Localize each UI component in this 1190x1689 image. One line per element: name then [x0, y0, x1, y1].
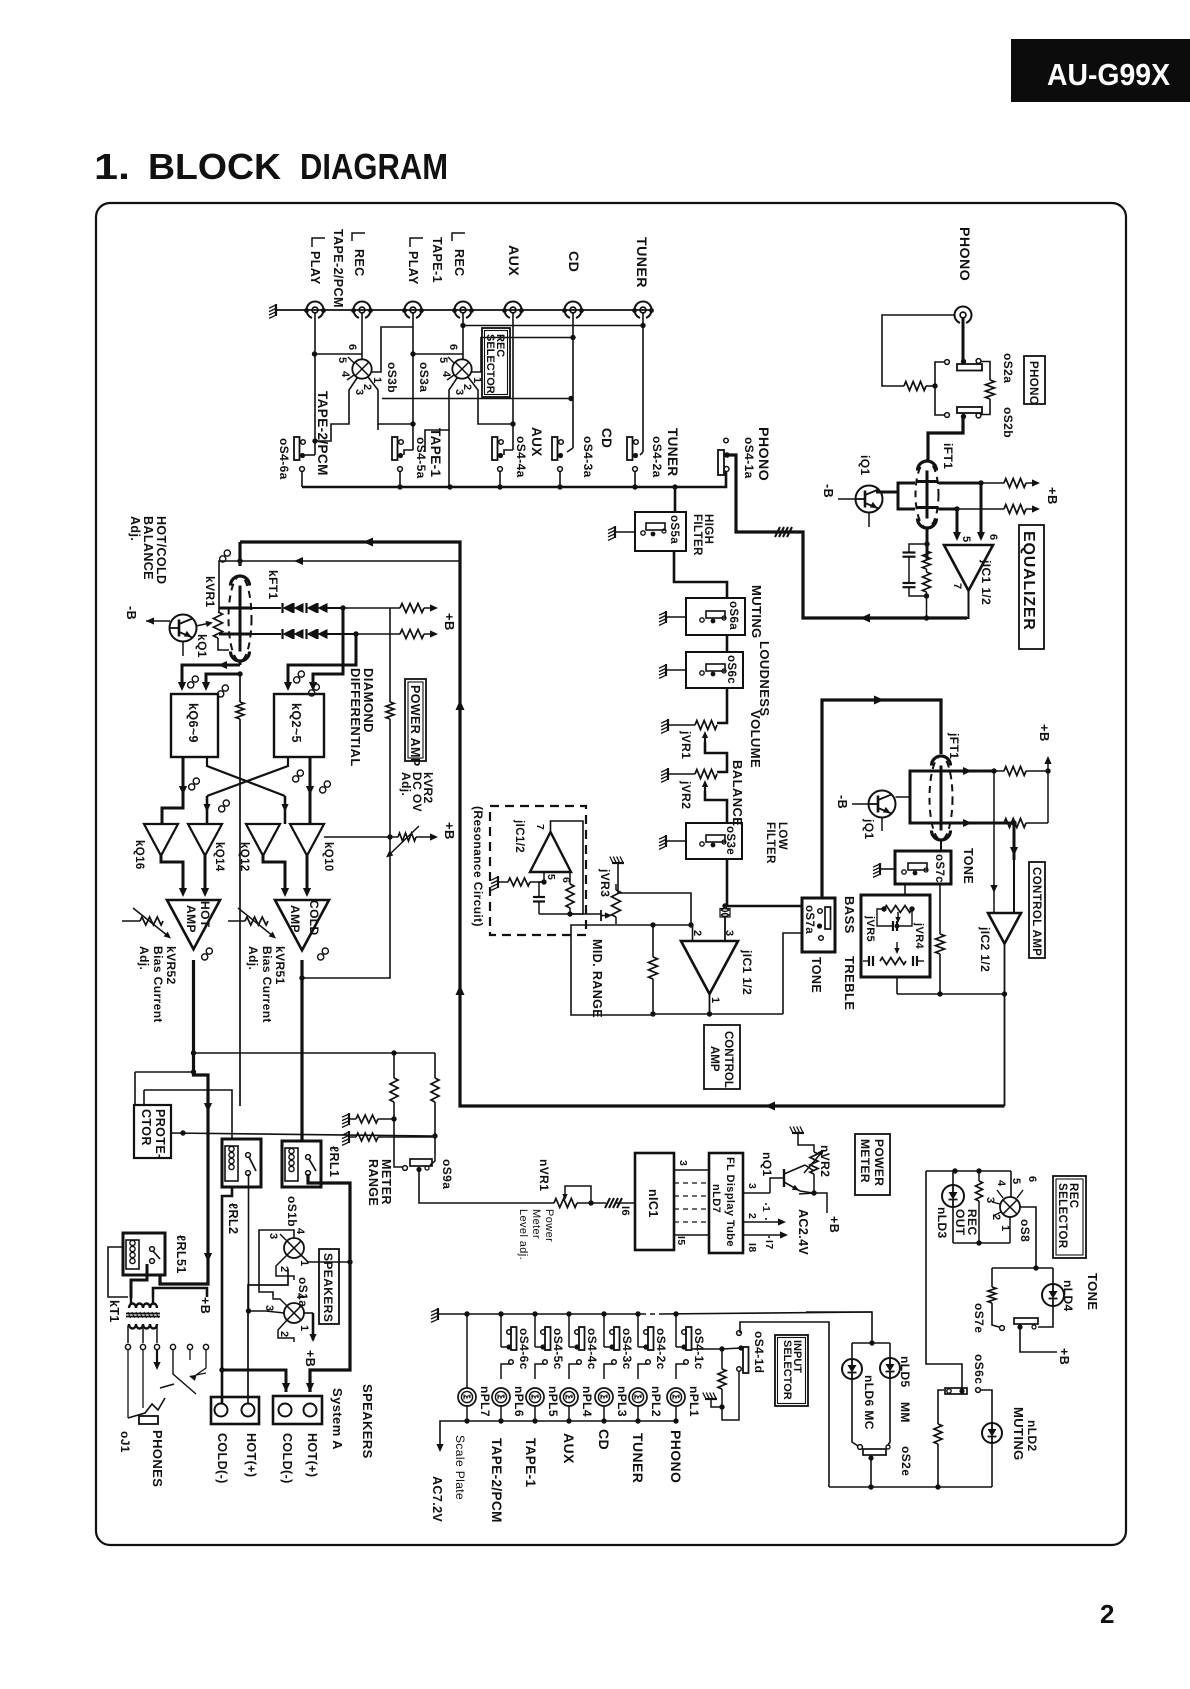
resistor meter gnd 1	[356, 1115, 378, 1123]
wire kRL1 output to speakers	[308, 1174, 350, 1392]
twisted pair marks kQ6~9	[188, 682, 194, 688]
wire kRL51 loop left	[108, 1247, 128, 1297]
svg-text:oS4-6a: oS4-6a	[277, 438, 291, 480]
svg-text:+B: +B	[1045, 487, 1060, 505]
wire oS2e to bottom rail	[870, 1458, 872, 1487]
svg-text:+B: +B	[1057, 1348, 1071, 1365]
wire oS1b pins	[280, 1234, 287, 1241]
svg-text:MID. RANGE: MID. RANGE	[590, 939, 604, 1018]
potentiometer nVR1	[554, 1199, 577, 1208]
wire pin5 feed (thick)	[956, 509, 959, 538]
op-amp jIC1 1/2 equalizer	[944, 545, 993, 591]
svg-text:CONTROL AMP: CONTROL AMP	[1030, 867, 1042, 956]
wire oS8 pins	[1010, 1171, 1012, 1197]
svg-text:kVR51: kVR51	[273, 946, 287, 985]
wire jVR1 wiper to jVR2	[705, 742, 727, 772]
IC nIC1 box	[635, 1153, 674, 1250]
ground oS7c	[879, 863, 881, 875]
wire jIC2 output down to main bus	[1004, 941, 1006, 1106]
svg-text:6: 6	[447, 344, 459, 351]
wire AUX stem	[512, 313, 514, 450]
svg-text:MM: MM	[898, 1402, 912, 1423]
wire COLD terminal A drop	[222, 1370, 286, 1392]
svg-text:PHONES: PHONES	[150, 1430, 165, 1487]
svg-text:nPL7: nPL7	[478, 1386, 492, 1417]
switch box oS7a TONE	[802, 898, 835, 952]
wire bus to high filter	[674, 487, 677, 512]
svg-text:Adj.: Adj.	[246, 946, 260, 970]
op-amp jIC1 1/2 resonance (pointing up)	[530, 832, 571, 872]
svg-text:oS4-5c: oS4-5c	[551, 1328, 565, 1370]
svg-text:Bias Current: Bias Current	[151, 946, 165, 1023]
wire oS7c to BASS TREBLE box	[904, 884, 906, 895]
block kQ2~5	[274, 694, 324, 757]
wire oS3b pin5 stub	[348, 357, 354, 363]
wire resonance to jVR3 wiper	[539, 913, 601, 915]
svg-text:kQ14: kQ14	[213, 842, 225, 872]
svg-text:+B: +B	[442, 613, 457, 631]
svg-text:REC: REC	[452, 249, 466, 277]
wire oS7c right to resistor	[939, 884, 941, 934]
svg-text:oS2e: oS2e	[899, 1446, 913, 1476]
svg-text:AUX: AUX	[505, 245, 521, 276]
wire bass treble out	[896, 977, 898, 994]
shield hatch nIC1 input	[605, 1198, 610, 1208]
svg-text:COLD(-): COLD(-)	[215, 1433, 229, 1484]
svg-text:FILTER: FILTER	[691, 514, 703, 556]
svg-text:TAPE-2/PCM: TAPE-2/PCM	[331, 229, 345, 308]
svg-text:System A: System A	[330, 1388, 345, 1450]
transformer kT1	[129, 1304, 157, 1309]
svg-text:nLD4: nLD4	[1061, 1280, 1075, 1312]
switch oS4-2a	[627, 437, 633, 460]
resistor RIAA 2	[923, 572, 931, 592]
wire tone led rail	[992, 1267, 1053, 1269]
svg-text:5: 5	[437, 357, 449, 364]
speaker terminal block B	[211, 1397, 259, 1424]
svg-text:SPEAKERS: SPEAKERS	[321, 1253, 335, 1322]
LED nLD5	[880, 1358, 900, 1378]
svg-text:OUT: OUT	[953, 1209, 967, 1236]
lamp nPL7	[458, 1388, 476, 1406]
wire center line with resistor	[239, 674, 241, 702]
wire TUNER stem	[642, 313, 644, 452]
wire oS3a pin4 stub	[447, 375, 454, 380]
wire oS3a pin3	[425, 378, 457, 452]
svg-text:TREBLE: TREBLE	[842, 956, 857, 1010]
capacitor resonance	[533, 896, 545, 898]
svg-text:nPL4: nPL4	[580, 1386, 594, 1417]
ground input select	[705, 1398, 717, 1400]
svg-text:1: 1	[999, 1225, 1011, 1232]
svg-text:6: 6	[346, 344, 358, 351]
svg-text:5: 5	[960, 536, 972, 543]
svg-text:nPL5: nPL5	[546, 1386, 560, 1417]
lamp nPL6	[492, 1388, 510, 1406]
jVR3 wiper	[601, 915, 609, 917]
wire selector output bus	[302, 472, 726, 488]
svg-text:SELECTOR: SELECTOR	[484, 334, 496, 394]
jack AUX	[505, 301, 522, 317]
svg-text:kQ1: kQ1	[195, 634, 209, 658]
wire oS4-3c path	[601, 1311, 606, 1316]
wire lower diode tap to kQ2~5	[288, 634, 356, 688]
svg-text:CD: CD	[565, 251, 581, 272]
headphone jack oJ1	[128, 1398, 165, 1418]
FL tube right pins	[743, 1192, 770, 1194]
svg-text:oS4-1d: oS4-1d	[752, 1331, 766, 1373]
wire protector to meter resistors	[171, 1133, 435, 1136]
svg-text:kFT1: kFT1	[266, 570, 280, 600]
svg-text:oS7e: oS7e	[972, 1303, 986, 1333]
wire nPL2 to rail	[637, 1406, 639, 1421]
svg-text:TAPE-1: TAPE-1	[523, 1438, 538, 1487]
transistor kQ1	[170, 615, 197, 642]
lamp nPL1	[667, 1388, 685, 1406]
wire rail riser left	[740, 1322, 829, 1487]
svg-text:EQUALIZER: EQUALIZER	[1020, 531, 1037, 631]
svg-text:iQ1: iQ1	[858, 455, 872, 476]
wire main feedback bus py1106	[240, 542, 1005, 1106]
wire kRL51 right to +B	[153, 1288, 207, 1297]
wire input jack bus	[306, 309, 652, 311]
svg-text:MUTING: MUTING	[1011, 1407, 1026, 1461]
svg-text:TAPE-2/PCM: TAPE-2/PCM	[315, 391, 330, 476]
wire equalizer output pin7	[967, 590, 969, 618]
svg-text:CTOR: CTOR	[139, 1109, 153, 1146]
resistor +B source	[1004, 505, 1026, 514]
wire oS4-6c path	[498, 1311, 503, 1316]
svg-text:Level adj.: Level adj.	[517, 1209, 529, 1260]
wire COLD feedback loop	[302, 837, 390, 978]
wire kQ16 to HOT AMP	[161, 855, 183, 894]
resistor phono input	[904, 382, 926, 391]
wire kFT1 left lead stubs	[219, 607, 229, 610]
wire TAPE-2 REC stem to oS3b pin6	[361, 313, 363, 359]
svg-text:2: 2	[746, 1213, 758, 1219]
svg-text:oS8: oS8	[1018, 1219, 1032, 1242]
resistor resonance feedback	[566, 884, 574, 908]
ground meter resistor 2	[348, 1131, 350, 1143]
wire oS4-1c filled to oS4-1d	[692, 1348, 722, 1350]
wire scale plate drop	[440, 1421, 455, 1446]
resistor +B tone drain	[1004, 767, 1026, 776]
COLD AMP triangle	[275, 900, 329, 950]
svg-text:Power: Power	[543, 1209, 555, 1242]
twisted pair marks kQ2~5	[294, 677, 300, 683]
wire phones contacts	[127, 1350, 129, 1418]
wire HOT AMP output down	[192, 960, 195, 1053]
CONTROL AMP box (right)	[1029, 862, 1045, 958]
wire phono jack stem	[962, 318, 965, 360]
svg-text:jVR2: jVR2	[679, 780, 693, 809]
twisted pair mark kVR1	[220, 556, 226, 562]
switch oS9a	[394, 1161, 403, 1167]
buffer kQ16	[144, 824, 178, 856]
wire TUNER line to oS3a region	[463, 325, 643, 327]
svg-text:oS4-3a: oS4-3a	[581, 436, 595, 478]
ground jVR3	[612, 862, 624, 864]
wire resonance output loop	[551, 821, 584, 914]
wire oS1a pins	[273, 1296, 287, 1306]
wire muting to loudness	[726, 635, 729, 652]
wire -B to iQ1	[838, 498, 855, 500]
wire jIC2 inputs	[993, 771, 995, 905]
wire oS2b output to iFT1 (thick)	[928, 418, 963, 461]
wire low filter to control amp input	[726, 859, 729, 906]
svg-text:oS3a: oS3a	[417, 362, 431, 392]
svg-text:oS9a: oS9a	[440, 1159, 454, 1189]
potentiometer jVR1 VOLUME	[695, 721, 717, 730]
relay kRL51	[123, 1233, 165, 1275]
resistor +B lower	[400, 630, 424, 639]
svg-text:1.: 1.	[94, 146, 130, 187]
svg-text:HOT/COLD: HOT/COLD	[154, 516, 168, 584]
buffer kQ14	[188, 824, 222, 856]
wire oS7a up to jFT1 (thick)	[822, 700, 941, 898]
switch oS4-2c	[648, 1327, 654, 1350]
switch oS4-6c	[511, 1327, 517, 1350]
FL Display Tube box	[709, 1153, 743, 1253]
svg-text:2: 2	[278, 1266, 290, 1273]
svg-text:FILTER: FILTER	[764, 822, 776, 864]
ground resonance	[497, 876, 499, 888]
svg-text:oS2b: oS2b	[1001, 407, 1015, 438]
svg-text:oS2a: oS2a	[1001, 353, 1015, 383]
svg-text:RANGE: RANGE	[366, 1159, 380, 1206]
wire loudness to volume	[717, 688, 727, 723]
wire jVR2 wiper to low filter	[705, 791, 727, 823]
svg-text:jIC2 1/2: jIC2 1/2	[978, 926, 992, 972]
wire oS4-1c path	[673, 1311, 678, 1316]
svg-text:DIFFERENTIAL: DIFFERENTIAL	[348, 668, 363, 767]
potentiometer kVR52 bias	[122, 920, 140, 922]
EQUALIZER box	[1019, 525, 1044, 649]
svg-text:PROTE-: PROTE-	[153, 1109, 167, 1159]
svg-text:+B: +B	[198, 1297, 212, 1314]
svg-text:7: 7	[951, 583, 963, 590]
svg-text:METER: METER	[858, 1139, 872, 1183]
wire kQ10 feedback resistor leg	[386, 702, 394, 719]
switch oS4-5c	[545, 1327, 551, 1350]
svg-text:5: 5	[545, 874, 557, 880]
svg-text:nQ1: nQ1	[760, 1152, 774, 1177]
switch box oS7c	[895, 851, 951, 884]
svg-text:nLD2: nLD2	[1025, 1420, 1039, 1452]
svg-text:oS6c: oS6c	[972, 1354, 986, 1384]
svg-text:jVR1: jVR1	[679, 730, 693, 759]
wire iFT1 drain rail (thick)	[939, 482, 982, 485]
wire diode rail to +B resistors	[343, 607, 400, 609]
SPEAKERS box	[319, 1249, 339, 1324]
svg-text:1: 1	[298, 1260, 310, 1267]
speaker terminal block A	[273, 1396, 322, 1424]
wire kVR1 bottom	[218, 638, 229, 650]
svg-text:SELECTOR: SELECTOR	[1056, 1183, 1068, 1249]
Resonance Circuit dashed box	[490, 806, 586, 935]
wire nPL6 to rail	[500, 1406, 502, 1421]
wire kQ6~9 left output to kQ16	[182, 757, 185, 800]
switch oS4-4a	[492, 437, 498, 460]
wire high filter to muting	[674, 551, 727, 598]
LOUDNESS box oS6c	[686, 652, 743, 688]
wire TAPE-1 PLAY stem	[412, 313, 414, 450]
svg-text:nIC1: nIC1	[646, 1189, 660, 1218]
svg-text:PHONO: PHONO	[668, 1430, 684, 1483]
svg-text:7: 7	[534, 824, 546, 830]
svg-text:Adj.: Adj.	[399, 772, 413, 796]
jack TAPE-1 PLAY	[404, 301, 421, 317]
wire kQ6~9 right output cross to kQ14	[207, 757, 285, 796]
REC SELECTOR box	[482, 328, 510, 397]
svg-text:SELECTOR: SELECTOR	[781, 1340, 793, 1400]
diagram border frame	[96, 203, 1126, 1545]
wire nPL5 to rail	[534, 1406, 536, 1421]
wire rec bottom rail 2	[829, 1486, 992, 1488]
svg-text:SPEAKERS: SPEAKERS	[360, 1384, 375, 1459]
diode string upper	[252, 607, 282, 609]
svg-text:oS4-4a: oS4-4a	[514, 436, 528, 478]
svg-text:2: 2	[1100, 1599, 1114, 1629]
svg-text:I7: I7	[763, 1240, 775, 1250]
resistor rec out	[976, 1181, 983, 1201]
wire jFT1 source out (thick)	[953, 822, 1015, 825]
switch oS4-1a	[718, 450, 724, 475]
switch oS6c muting	[945, 1388, 967, 1394]
resistor muting	[934, 1424, 942, 1444]
svg-text:AU-G99X: AU-G99X	[1047, 57, 1170, 92]
buffer kQ10	[290, 824, 324, 856]
op-amp jIC2 1/2	[988, 913, 1021, 944]
svg-text:kQ12: kQ12	[238, 842, 250, 872]
svg-text:I8: I8	[746, 1243, 758, 1253]
svg-text:Adj.: Adj.	[137, 946, 151, 970]
LOW FILTER box oS3e	[686, 823, 742, 859]
switch oS2b	[957, 407, 982, 413]
svg-text:3: 3	[453, 389, 465, 396]
wire HOT to relay drop	[160, 1053, 208, 1284]
potentiometer kVR51 bias	[228, 920, 245, 922]
wire kFT1 bottom to kQ6~9 left	[239, 661, 242, 665]
svg-text:nPL6: nPL6	[512, 1386, 526, 1417]
wire pin2 rail	[653, 924, 691, 926]
model badge AU-G99X	[1011, 39, 1190, 102]
twisted pair marks amp inputs	[189, 784, 195, 790]
wire rec rail down to oS6c switch	[926, 1171, 962, 1389]
svg-text:TAPE-1: TAPE-1	[430, 237, 444, 283]
svg-text:4: 4	[339, 371, 351, 378]
svg-text:oS3b: oS3b	[385, 362, 399, 393]
wire kT1 primary ends	[130, 1297, 132, 1304]
wire oS3b pin3	[315, 378, 357, 441]
svg-text:kQ10: kQ10	[322, 842, 334, 872]
wire lamp bottom rail	[455, 1420, 676, 1422]
treble network	[868, 956, 870, 966]
LED nLD6	[842, 1359, 862, 1379]
svg-text:(Resonance Circuit): (Resonance Circuit)	[471, 806, 485, 927]
ground meter resistor 1	[348, 1113, 350, 1125]
resistor control amp feedback	[649, 957, 658, 979]
kVR2 pot DC offset	[398, 833, 416, 841]
svg-text:iFT1: iFT1	[941, 443, 955, 469]
svg-text:TUNER: TUNER	[633, 237, 649, 288]
ground high filter	[614, 526, 616, 538]
switch oS4-4c	[579, 1327, 585, 1350]
svg-text:2: 2	[278, 1331, 290, 1338]
rotary oS1a	[284, 1303, 304, 1323]
dual FET iFT1	[918, 461, 937, 470]
LED nLD2	[982, 1423, 1002, 1443]
LED nLD3	[942, 1185, 964, 1207]
INPUT SELECTOR box	[775, 1335, 808, 1406]
resistor resonance input	[508, 878, 530, 886]
svg-text:AC7.2V: AC7.2V	[430, 1476, 444, 1522]
resistor meter gnd 2	[356, 1133, 378, 1141]
svg-text:1: 1	[709, 997, 721, 1004]
svg-text:kQ2~5: kQ2~5	[289, 703, 303, 743]
svg-text:AMP: AMP	[288, 905, 302, 933]
svg-text:TONE: TONE	[809, 957, 823, 993]
resistor meter right	[431, 1078, 439, 1102]
svg-text:6: 6	[987, 534, 999, 541]
svg-text:TAPE-2/PCM: TAPE-2/PCM	[489, 1438, 504, 1523]
PROTECTOR box	[134, 1105, 171, 1158]
svg-text:+B: +B	[303, 1350, 317, 1367]
transistor nQ1	[770, 1178, 783, 1193]
wire output rail to oS7a	[783, 933, 802, 1014]
HOT AMP triangle	[167, 900, 220, 949]
wire oS9a to nVR1	[419, 1170, 554, 1204]
svg-text:-B: -B	[835, 795, 849, 809]
svg-text:BLOCK: BLOCK	[148, 146, 281, 187]
svg-text:I6: I6	[619, 1206, 631, 1216]
label REC (TAPE-1)	[452, 233, 465, 241]
wire nLD4 to oS7e	[1038, 1306, 1053, 1327]
svg-text:ℓRL2: ℓRL2	[226, 1203, 240, 1234]
svg-text:AUX: AUX	[561, 1433, 577, 1464]
svg-text:+B: +B	[442, 822, 457, 840]
relay kRL1	[282, 1141, 321, 1187]
wire oS3b pin1 to TAPE-1 PLAY	[372, 327, 413, 372]
svg-text:3: 3	[677, 1160, 689, 1166]
svg-text:nPL1: nPL1	[687, 1386, 701, 1417]
ground loudness	[665, 664, 667, 676]
ferrite bead	[721, 909, 729, 917]
wire jQ1 emitter	[881, 818, 883, 832]
label PLAY (TAPE-2)	[312, 238, 325, 247]
svg-text:jIC1 1/2: jIC1 1/2	[740, 949, 754, 995]
wire TAPE-1 REC stem to oS3a pin6	[462, 313, 464, 359]
capacitor RIAA 1	[909, 544, 927, 552]
svg-text:PHONO: PHONO	[1027, 361, 1039, 405]
wire between caps	[908, 557, 910, 583]
wire oS3b pin2 to oS4-5a	[368, 377, 413, 424]
svg-text:jIC1/2: jIC1/2	[513, 819, 525, 853]
svg-text:AUX: AUX	[529, 427, 544, 457]
relay kRL2	[222, 1139, 261, 1187]
switch oS4-1c	[686, 1327, 692, 1350]
wire to kVR1	[219, 561, 222, 612]
svg-text:5: 5	[336, 357, 348, 364]
wire jFT1 bottom to oS7c	[940, 840, 942, 851]
contact circles phones switch	[125, 1344, 130, 1349]
resistor +B tone source	[1004, 819, 1026, 828]
svg-text:3: 3	[263, 1305, 275, 1312]
resistor +B drain	[1004, 479, 1026, 488]
ground nVR2	[792, 1132, 804, 1134]
svg-text:nPL2: nPL2	[649, 1386, 663, 1417]
wire kRL2 contact down to oS1a	[248, 1174, 250, 1311]
